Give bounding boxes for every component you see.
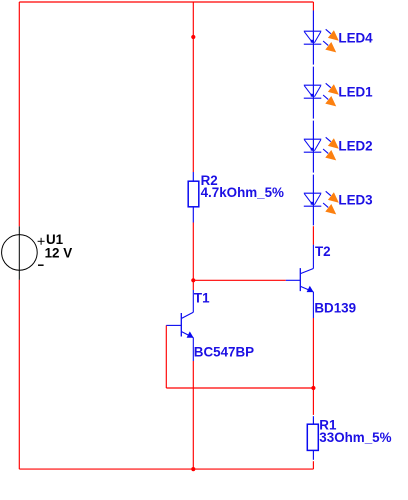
svg-text:T1: T1: [194, 291, 210, 306]
svg-text:LED2: LED2: [338, 139, 372, 154]
svg-text:4.7kOhm_5%: 4.7kOhm_5%: [201, 185, 284, 200]
svg-text:LED3: LED3: [338, 193, 372, 208]
svg-text:LED4: LED4: [338, 31, 373, 46]
svg-text:LED1: LED1: [338, 85, 373, 100]
svg-text:BD139: BD139: [314, 301, 356, 316]
svg-text:BC547BP: BC547BP: [194, 345, 254, 360]
svg-text:T2: T2: [315, 244, 331, 259]
svg-text:12 V: 12 V: [45, 245, 73, 260]
svg-text:33Ohm_5%: 33Ohm_5%: [319, 430, 391, 445]
